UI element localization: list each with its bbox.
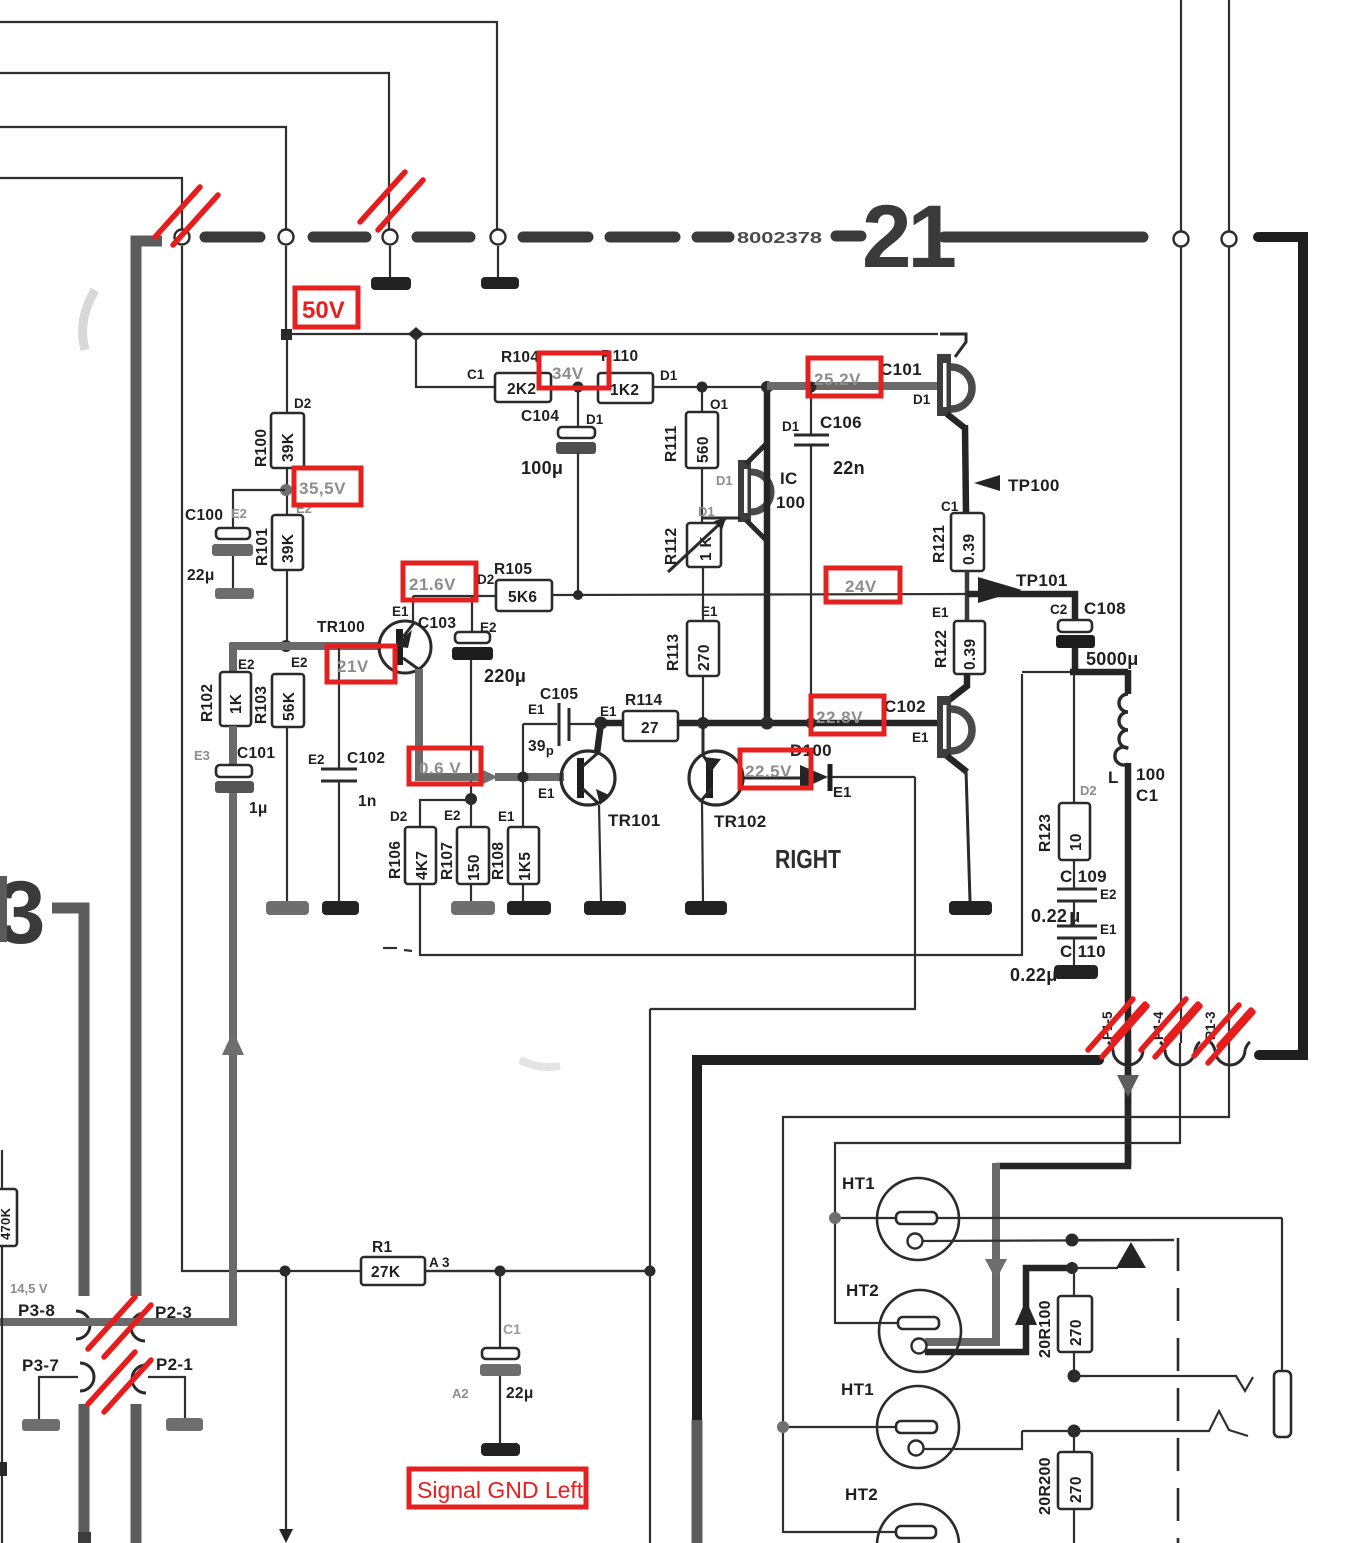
svg-text:HT2: HT2 xyxy=(845,1485,878,1504)
svg-text:R100: R100 xyxy=(253,429,270,467)
ground bar TR101 xyxy=(584,901,626,915)
svg-text:560: 560 xyxy=(695,436,712,463)
node junction C1 tap x500 xyxy=(495,1266,506,1349)
label E2 grid ref C109 xyxy=(1100,887,1117,902)
svg-text:TR102: TR102 xyxy=(714,812,767,831)
wire thick right frame xyxy=(1258,237,1303,1055)
ground bar TR102 xyxy=(685,901,727,915)
ground bar below R103 grey xyxy=(266,901,309,915)
label D1 grid ref C106 xyxy=(782,419,800,434)
node junction x650 on R1 line xyxy=(645,1266,656,1277)
label D1 grid ref IC100 xyxy=(716,473,733,488)
wire output node y672 xyxy=(1022,671,1128,673)
connector cup P1-5 xyxy=(1108,1042,1148,1065)
svg-text:1n: 1n xyxy=(358,793,377,810)
resistor R104 2K2 xyxy=(416,334,551,402)
lamp HT1 first xyxy=(835,1178,1282,1260)
lamp HT2 second xyxy=(783,1504,959,1543)
svg-text:1 K: 1 K xyxy=(698,535,715,561)
wire R1 line continuing to loop vertical x650 xyxy=(500,1270,650,1272)
label C104 xyxy=(521,408,559,425)
label C1 grid ref R104 xyxy=(467,367,485,382)
svg-text:20R100: 20R100 xyxy=(1037,1300,1054,1358)
capacitor C105 39p xyxy=(523,703,601,777)
svg-text:R1: R1 xyxy=(372,1239,392,1256)
resistor R112 1K variable xyxy=(668,518,726,572)
svg-text:C1: C1 xyxy=(1136,786,1158,805)
red box 25.2V xyxy=(808,358,881,396)
transistor TR100 xyxy=(379,621,431,673)
wire grey R102 stub xyxy=(229,643,237,672)
wire R122 to C102 emitter xyxy=(949,674,967,700)
label C109 xyxy=(1060,867,1107,886)
label E1 grid ref C110 xyxy=(1100,922,1117,937)
label E1 grid ref C105 xyxy=(528,702,545,717)
label R103 xyxy=(253,686,270,724)
red hatch over input line 2 column xyxy=(360,172,423,230)
label C100 xyxy=(185,507,223,524)
svg-text:21V: 21V xyxy=(337,657,369,676)
wire R110 to node x702 xyxy=(653,386,767,388)
svg-text:C 110: C 110 xyxy=(1060,942,1106,961)
red box 21.6V xyxy=(403,563,476,600)
svg-text:C 109: C 109 xyxy=(1060,867,1107,886)
svg-text:20R200: 20R200 xyxy=(1037,1457,1054,1515)
label D1 grid ref R110 xyxy=(660,368,678,383)
label 20R200 xyxy=(1037,1457,1054,1515)
label P1-5 xyxy=(1100,1011,1115,1040)
node 34V junction xyxy=(573,382,584,393)
label D2 grid ref R123 xyxy=(1080,783,1097,798)
label IC 100 xyxy=(776,469,805,512)
svg-text:24V: 24V xyxy=(845,577,877,596)
svg-text:270: 270 xyxy=(696,644,713,671)
label C105 xyxy=(540,686,578,703)
svg-text:22.5V: 22.5V xyxy=(745,762,792,781)
label P1-4 xyxy=(1151,1011,1166,1040)
label E2 above R107 xyxy=(444,808,461,823)
wire grey corner to left vertical bus P2-3 column xyxy=(136,241,162,1296)
wire 50V supply rail xyxy=(287,334,966,357)
node dot at left edge xyxy=(0,1462,7,1476)
svg-text:21.6V: 21.6V xyxy=(409,575,456,594)
node junction jack tip feed xyxy=(1068,1370,1081,1383)
label R100 xyxy=(253,429,270,467)
wire grey P2-3 signal horizontal y1322 xyxy=(0,792,233,1322)
resistor R106 4K7 xyxy=(405,827,436,884)
resistor R105 5K6 xyxy=(496,580,552,611)
arrow down on speaker wire xyxy=(1117,1075,1139,1097)
svg-text:150: 150 xyxy=(466,854,483,881)
wire R104 to R110 xyxy=(551,386,598,388)
label E1 grid ref TR101 xyxy=(538,786,555,801)
label C106 xyxy=(820,413,862,432)
wire sense line down from node x285 to bottom edge xyxy=(279,1271,293,1543)
node 35.5V junction xyxy=(280,484,292,496)
label P3-7 xyxy=(22,1356,59,1375)
resistor R101 39K xyxy=(272,515,303,570)
svg-text:270: 270 xyxy=(1068,1319,1085,1346)
svg-text:21: 21 xyxy=(862,186,955,286)
label 14,5 V xyxy=(10,1281,48,1296)
node junction C106 tap xyxy=(806,382,817,393)
arrow up on black speaker loop xyxy=(1015,1300,1037,1325)
inductor L100 xyxy=(1115,670,1128,1166)
value 5000u xyxy=(1086,649,1139,669)
wire grey bus continuation below xyxy=(692,1420,703,1543)
red hatch P3-7 P2-1 xyxy=(88,1352,151,1412)
wire R107 to ground xyxy=(470,884,472,901)
wire dashed continuation left of bootstrap xyxy=(383,948,412,951)
wire 24V sense line xyxy=(552,594,967,595)
wire black speaker loop via 20R100 xyxy=(925,1268,1072,1352)
label D1 grid ref C101 xyxy=(913,392,931,407)
node junction 20R200 top xyxy=(1068,1425,1081,1438)
label P3-8 xyxy=(18,1301,55,1320)
svg-text:D1: D1 xyxy=(660,368,678,383)
wire top supply line 2 xyxy=(0,73,389,229)
transistor C102 power xyxy=(937,696,972,772)
svg-text:E1: E1 xyxy=(528,702,545,717)
diode D100 xyxy=(800,764,830,791)
svg-text:R101: R101 xyxy=(254,528,271,566)
svg-text:C1: C1 xyxy=(467,367,485,382)
label P2-3 xyxy=(155,1303,192,1322)
svg-text:E1: E1 xyxy=(932,605,949,620)
svg-text:E3: E3 xyxy=(194,748,210,763)
resistor R110 1K2 xyxy=(598,373,653,403)
value 100u xyxy=(521,458,563,478)
svg-text:E1: E1 xyxy=(498,809,515,824)
label C102 xyxy=(347,750,385,767)
label HT1 first xyxy=(842,1174,875,1193)
svg-text:34V: 34V xyxy=(552,364,584,383)
node grey junction inner box HT1 xyxy=(829,1212,841,1224)
value 0.22u C109 xyxy=(1031,906,1081,926)
svg-text:C102: C102 xyxy=(884,697,926,716)
label E2 above R102 xyxy=(238,657,255,672)
svg-text:5K6: 5K6 xyxy=(508,589,537,606)
red box 35,5V xyxy=(294,468,361,505)
label R102 xyxy=(199,684,216,722)
label D1 grid ref above R112 xyxy=(698,504,715,519)
svg-text:0.39: 0.39 xyxy=(961,534,978,565)
ground bar below C102 xyxy=(322,901,359,915)
wire TP101 thick to C108 xyxy=(967,594,1075,620)
svg-text:HT2: HT2 xyxy=(846,1281,879,1300)
label E1 TR100 xyxy=(392,604,409,619)
svg-text:4K7: 4K7 xyxy=(414,851,431,880)
label C2 grid ref C108 xyxy=(1050,602,1067,617)
label P2-1 xyxy=(156,1355,193,1374)
svg-text:1K: 1K xyxy=(228,693,245,714)
connector arcs P3-8 to P2-3 xyxy=(76,1311,145,1341)
test point TP101 arrow xyxy=(978,571,1068,603)
resistor partial at left edge 470K xyxy=(0,1150,17,1543)
svg-text:E1: E1 xyxy=(600,704,617,719)
svg-text:C100: C100 xyxy=(185,507,223,524)
svg-text:220μ: 220μ xyxy=(484,666,526,686)
label E1 grid ref R114 xyxy=(600,704,617,719)
lamp HT1 second xyxy=(783,1386,1022,1468)
node junction speaker top contact xyxy=(1066,1234,1079,1247)
wire grey TR100 base rail y646 xyxy=(230,642,381,650)
label HT2 first xyxy=(846,1281,879,1300)
svg-text:C108: C108 xyxy=(1084,599,1126,618)
resistor R102 1K xyxy=(220,672,251,726)
label R113 xyxy=(665,634,682,671)
label D1 grid ref above R111 xyxy=(710,397,729,412)
svg-text:C105: C105 xyxy=(540,686,578,703)
capacitor C101 1u electrolytic xyxy=(215,765,254,793)
wire TR101 collector thick xyxy=(597,723,601,753)
label TR102 xyxy=(714,812,767,831)
capacitor C102 1n xyxy=(321,646,357,901)
svg-text:TR101: TR101 xyxy=(608,811,661,830)
resistor R113 270 xyxy=(687,567,719,676)
resistor R123 10 xyxy=(1059,803,1090,860)
capacitor C106 22n xyxy=(794,387,829,723)
node junction TR101 base R108 xyxy=(518,772,529,783)
wire R106 jog xyxy=(420,800,471,827)
ground bar P3-7 xyxy=(22,1419,60,1431)
wire C101 emitter thick down to R121 xyxy=(965,425,966,513)
svg-text:L: L xyxy=(1108,768,1119,787)
wire thick ground bus bottom xyxy=(697,1060,1099,1420)
svg-text:R103: R103 xyxy=(253,686,270,724)
ground bar signal gnd left xyxy=(481,1443,520,1456)
node junction x702 xyxy=(697,382,708,393)
node junction C103 column on base line xyxy=(465,793,477,805)
wire D100 to feedback column xyxy=(832,776,915,778)
wire grey speaker return down to HT2 xyxy=(925,1163,996,1342)
ground bar below R107 grey xyxy=(451,901,495,915)
label D1 grid ref C104 xyxy=(586,412,604,427)
value 1n xyxy=(358,793,377,810)
ground bar below bus at x390 xyxy=(371,246,411,290)
svg-text:C104: C104 xyxy=(521,408,559,425)
value 220u xyxy=(484,666,526,686)
svg-text:R104: R104 xyxy=(501,349,539,366)
svg-text:27: 27 xyxy=(641,720,659,737)
svg-text:D1: D1 xyxy=(586,412,604,427)
svg-text:22n: 22n xyxy=(833,458,865,478)
label D2 grid ref R105 xyxy=(477,572,494,587)
wire right vertical P1-4 column xyxy=(1180,0,1182,1043)
svg-text:C106: C106 xyxy=(820,413,862,432)
wire loop vertical x650 xyxy=(649,1009,651,1543)
label R108 xyxy=(490,842,507,880)
arrow down on grey speaker return xyxy=(985,1259,1007,1280)
svg-text:0.22μ: 0.22μ xyxy=(1010,965,1058,985)
label C1 xyxy=(503,1321,521,1337)
svg-text:E2: E2 xyxy=(231,506,247,521)
wire output rail thick y723 xyxy=(677,720,941,727)
wire jack sleeve line from lamp rail xyxy=(1281,1218,1283,1371)
svg-text:C101: C101 xyxy=(237,745,275,762)
svg-text:Signal GND Left: Signal GND Left xyxy=(417,1477,584,1503)
label R105 xyxy=(494,561,532,578)
svg-text:D1: D1 xyxy=(716,473,733,488)
svg-text:D2: D2 xyxy=(477,572,494,587)
svg-text:470K: 470K xyxy=(0,1207,13,1240)
wire dashed jack linkage xyxy=(1177,1238,1180,1543)
wire grey left bus lower stubs below connectors xyxy=(78,1404,136,1543)
node junction R114 left xyxy=(595,717,608,730)
svg-text:10: 10 xyxy=(1068,833,1085,851)
label C101 xyxy=(237,745,275,762)
svg-text:E1: E1 xyxy=(1100,922,1117,937)
ground bar C102 xyxy=(949,901,992,915)
svg-text:0.39: 0.39 xyxy=(962,639,979,670)
connector circle on bus at x390 xyxy=(383,230,398,245)
wire grey C101 base line 25.2V xyxy=(767,382,941,390)
svg-text:1K2: 1K2 xyxy=(610,382,639,399)
svg-text:C102: C102 xyxy=(347,750,385,767)
ground bar below C110 xyxy=(1054,965,1098,979)
svg-text:E2: E2 xyxy=(480,620,497,635)
red hatch P1-5 xyxy=(1088,999,1147,1057)
svg-text:D2: D2 xyxy=(1080,783,1097,798)
svg-text:0.6 V: 0.6 V xyxy=(419,759,461,778)
connector cup P1-3 xyxy=(1210,1042,1250,1065)
wire R108 to ground xyxy=(522,884,524,901)
svg-text:D1: D1 xyxy=(913,392,931,407)
wire TR101 emitter to ground xyxy=(599,805,601,901)
svg-text:O1: O1 xyxy=(710,397,729,412)
label R1 xyxy=(372,1239,392,1256)
red hatch over input line 4 xyxy=(155,187,218,245)
node junction C106 bottom xyxy=(806,718,817,729)
node junction x767 top xyxy=(761,381,773,393)
svg-text:27K: 27K xyxy=(371,1264,401,1281)
svg-text:R102: R102 xyxy=(199,684,216,722)
label R104 xyxy=(501,349,539,366)
wire bootstrap horizontal y955 from R106 to output column xyxy=(420,674,1022,955)
label R107 xyxy=(439,842,456,880)
svg-text:56K: 56K xyxy=(281,691,298,721)
label C1 grid ref R121 xyxy=(941,499,959,514)
value 1u xyxy=(249,800,268,817)
wire right vertical P1-3 column xyxy=(1228,0,1230,1043)
label L 100 C1 xyxy=(1108,765,1165,805)
node junction 20R100 top xyxy=(1066,1262,1078,1274)
svg-text:R105: R105 xyxy=(494,561,532,578)
value 22u xyxy=(187,567,215,584)
svg-text:HT1: HT1 xyxy=(841,1380,874,1399)
resistor R103 56K xyxy=(272,674,304,727)
svg-text:270: 270 xyxy=(1068,1476,1085,1503)
svg-text:C2: C2 xyxy=(1050,602,1067,617)
resistor 20R100 270 xyxy=(1058,1268,1092,1376)
label C103 xyxy=(418,615,456,632)
connector circle on bus at x286 xyxy=(279,230,294,245)
svg-text:50V: 50V xyxy=(302,297,345,324)
wire grey stub from digit 3 to left vertical bus P3-8 column xyxy=(52,908,84,1296)
wire R107 stub xyxy=(470,799,472,827)
resistor R1 27K xyxy=(361,1257,500,1285)
svg-text:5000μ: 5000μ xyxy=(1086,649,1139,669)
svg-text:22μ: 22μ xyxy=(187,567,215,584)
svg-text:2K2: 2K2 xyxy=(507,381,536,398)
svg-text:RIGHT: RIGHT xyxy=(775,844,841,874)
value 39p xyxy=(528,738,554,758)
svg-text:35,5V: 35,5V xyxy=(299,479,346,498)
svg-text:R114: R114 xyxy=(625,692,662,709)
lamp HT2 first xyxy=(835,1290,961,1372)
svg-text:E2: E2 xyxy=(308,752,325,767)
label R101 xyxy=(254,528,271,566)
svg-text:100: 100 xyxy=(1136,765,1165,784)
svg-text:R112: R112 xyxy=(663,528,680,565)
label R122 xyxy=(933,630,950,668)
wire jack upper switch contact xyxy=(1074,1376,1253,1391)
label E1 above R113 xyxy=(701,604,718,619)
svg-text:R122: R122 xyxy=(933,630,950,668)
connector arcs P3-7 to P2-1 xyxy=(80,1363,146,1393)
label E1 grid ref C102 xyxy=(912,730,929,745)
node 50V junction xyxy=(281,329,292,340)
svg-text:E1: E1 xyxy=(833,784,851,801)
svg-text:100μ: 100μ xyxy=(521,458,563,478)
wire P2-1 stub to ground xyxy=(148,1377,185,1418)
wire R105 left segment xyxy=(413,595,496,597)
wire R121 to TP101 node xyxy=(965,571,970,621)
label R114 xyxy=(625,692,662,709)
svg-text:D2: D2 xyxy=(390,809,407,824)
red box 22.5V xyxy=(740,750,811,788)
svg-text:E2: E2 xyxy=(444,808,461,823)
label R121 xyxy=(931,525,948,563)
node junction TR102 collector xyxy=(697,717,709,729)
label TR100 xyxy=(317,619,365,636)
svg-text:E1: E1 xyxy=(538,786,555,801)
wire C100 tap xyxy=(233,490,285,528)
label D100 xyxy=(790,741,832,760)
value 0.22u C110 xyxy=(1010,965,1058,985)
wire top supply line 4 xyxy=(0,178,182,229)
svg-text:C103: C103 xyxy=(418,615,456,632)
wire TR102 emitter to D100 xyxy=(741,777,800,780)
wire R103 to ground xyxy=(286,727,288,901)
label E2 grid ref C100 xyxy=(231,506,247,521)
ground bar P2-1 xyxy=(166,1418,203,1431)
wire top supply line 3 xyxy=(0,127,286,229)
capacitor C104 100u electrolytic xyxy=(556,387,596,595)
wire C102 collector to ground xyxy=(966,770,970,901)
svg-text:D1: D1 xyxy=(782,419,800,434)
wire P3-7 stub to ground xyxy=(39,1377,78,1419)
svg-text:8002378: 8002378 xyxy=(737,230,822,247)
svg-text:R121: R121 xyxy=(931,525,948,563)
label R111 xyxy=(663,425,680,462)
red box 21V xyxy=(327,646,395,682)
wire R100 column vertical xyxy=(286,335,288,646)
label E2 grid ref below 35.5V xyxy=(296,501,312,516)
resistor 20R200 270 xyxy=(1058,1431,1092,1543)
arrow up on grey P2-3 line xyxy=(222,1031,244,1055)
svg-text:39K: 39K xyxy=(280,533,297,563)
label HT1 second xyxy=(841,1380,874,1399)
svg-text:D2: D2 xyxy=(294,396,311,411)
red hatch P1-3 xyxy=(1194,1005,1253,1063)
transistor C101 power xyxy=(937,354,972,429)
resistor R107 150 xyxy=(457,827,489,884)
svg-text:A 3: A 3 xyxy=(429,1255,450,1270)
wire P1-3 down to outer lamp box xyxy=(783,1061,1229,1533)
label R106 xyxy=(387,841,404,879)
wire R111 to R112 xyxy=(701,468,703,523)
